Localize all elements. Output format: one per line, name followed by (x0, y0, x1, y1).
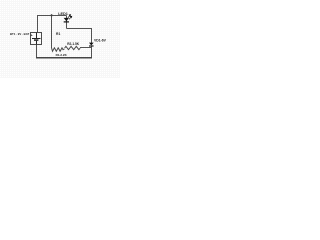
LED LED1 emission arrow 1 (68, 15, 72, 20)
battery BT1 box (31, 33, 42, 45)
LED LED1 emission arrow 2 (69, 17, 71, 19)
resistor R2 zigzag (65, 46, 81, 49)
svg-text:R1: R1 (56, 32, 60, 36)
resistor R1 zigzag (52, 48, 65, 52)
wire R1 drop from top rail junction (51, 16, 53, 48)
svg-text:+: + (31, 33, 33, 37)
diode VD1 cathode bar (89, 45, 94, 47)
wire battery- down to bottom rail (36, 45, 38, 59)
svg-text:VD1-6V: VD1-6V (94, 39, 107, 43)
wire bottom rail (36, 57, 92, 59)
svg-text:R2-1.5K: R2-1.5K (67, 42, 80, 46)
LED LED1 triangle (64, 18, 69, 21)
wire right side bottom rail up to diode cathode (91, 46, 93, 58)
svg-text:LED1: LED1 (58, 12, 68, 16)
wire mid rail LED cathode to right vertical down to diode (67, 29, 92, 43)
diode VD1 triangle (89, 43, 94, 46)
wire battery+ to top rail to LED anode (38, 16, 67, 33)
battery BT1 symbol (32, 33, 41, 45)
wire R2 right lead (80, 47, 91, 49)
svg-text:BT1 - 9V - BAT: BT1 - 9V - BAT (10, 32, 30, 36)
svg-text:R1-2.2K: R1-2.2K (56, 53, 68, 57)
junction node at top rail and R1 (51, 14, 53, 16)
LED LED1 cathode bar (64, 21, 69, 23)
wire LED drop (66, 16, 68, 29)
